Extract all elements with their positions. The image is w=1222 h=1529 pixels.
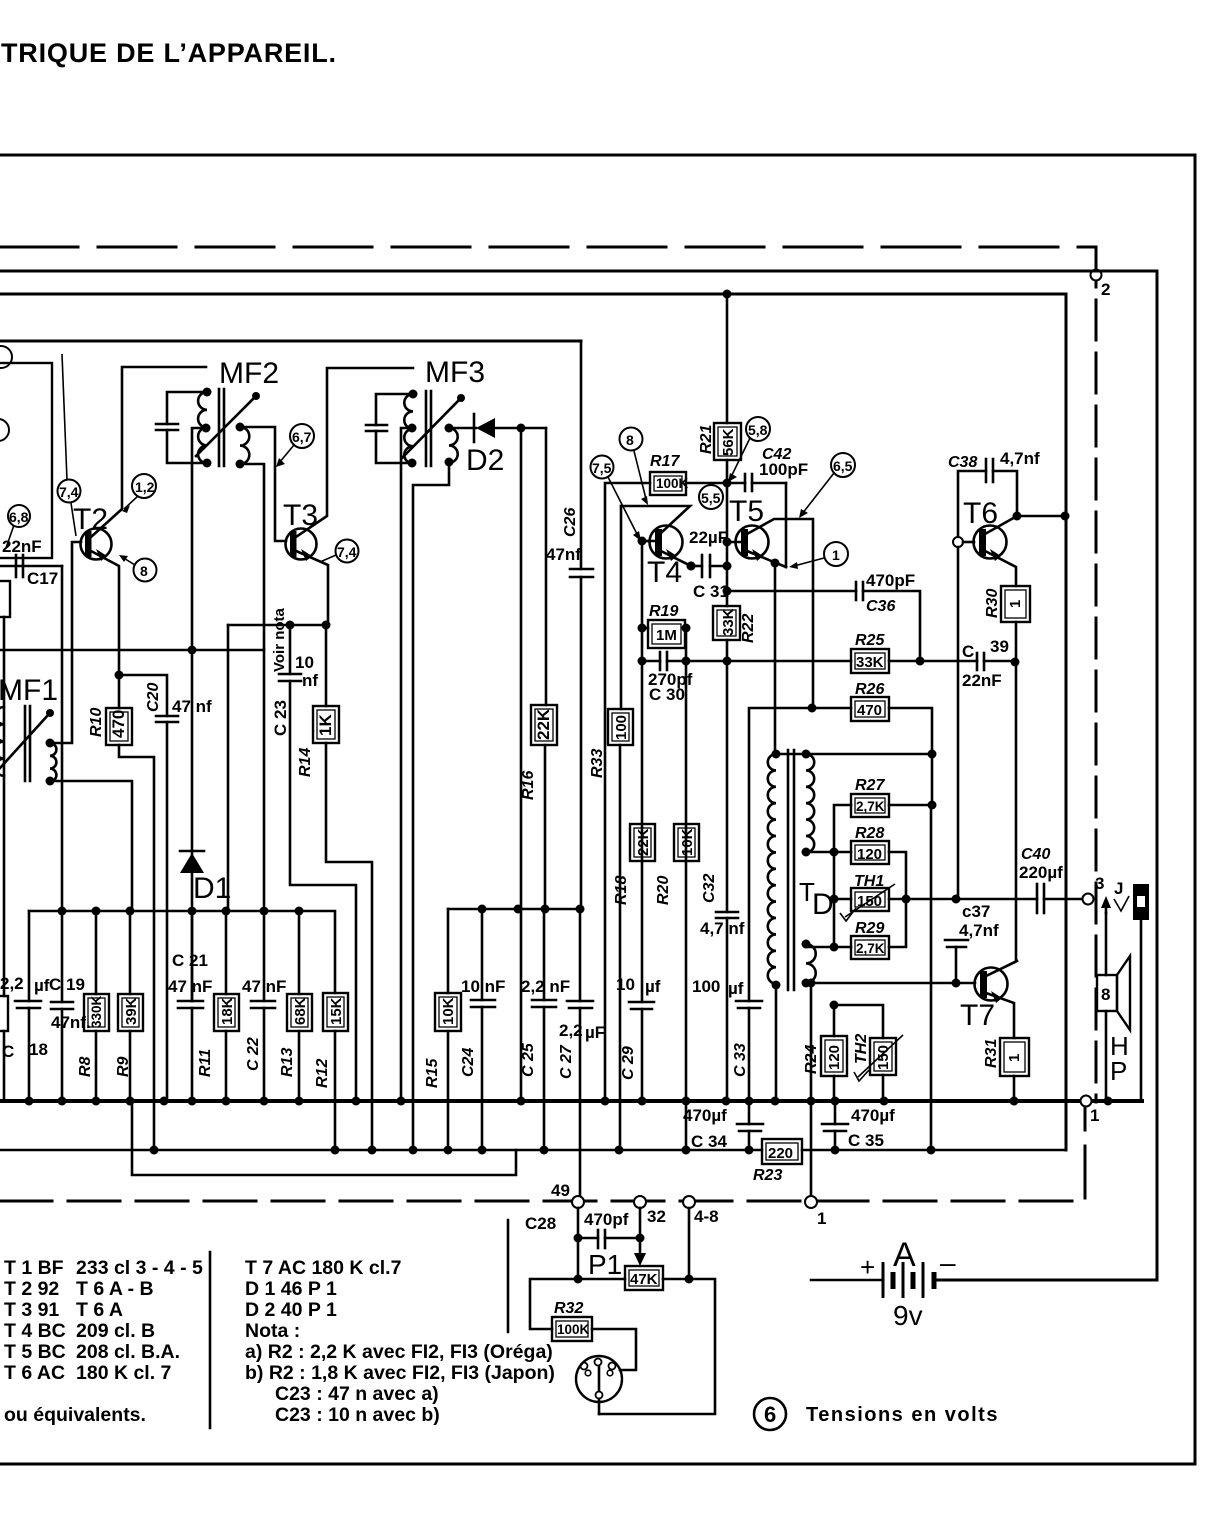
svg-text:7,4: 7,4 [59,484,79,500]
svg-text:120: 120 [857,846,882,863]
thermistor TH2 150 [834,1005,883,1038]
svg-text:µf: µf [645,977,661,996]
junction row y911 left [29,911,335,993]
svg-text:C28: C28 [525,1214,556,1233]
svg-text:µF: µF [585,1023,605,1042]
resistor R31 1 [1000,1038,1029,1076]
svg-text:D 1 46 P 1: D 1 46 P 1 [245,1278,337,1300]
svg-text:47 nF: 47 nF [242,977,286,996]
capacitor C34 470uF [748,1101,751,1124]
svg-text:47K: 47K [630,1271,658,1288]
R10 return to rail2 [119,745,154,1150]
transistor T3 [286,529,317,560]
R17 right wire [686,482,727,485]
wire MF2 sec top to T3 base [240,427,286,541]
leader line into oscillator box [62,354,67,480]
svg-text:D 2 40 P 1: D 2 40 P 1 [245,1299,337,1321]
capacitor C36 470pF row [723,587,732,596]
text divider line [507,1220,510,1332]
svg-text:18K: 18K [219,997,236,1025]
node 1 on main rail [1081,1096,1092,1107]
node 1 on dashed rail [805,1196,817,1208]
svg-text:2,2 nF: 2,2 nF [521,977,570,996]
voltage circle 5,5 [699,485,723,509]
svg-text:22nF: 22nF [2,537,42,556]
svg-text:nf: nf [302,671,318,690]
volume line x580 down [579,909,582,1202]
svg-text:R20: R20 [655,876,672,905]
svg-text:+: + [860,1252,875,1282]
svg-text:J: J [1114,879,1123,898]
svg-text:209 cl. B: 209 cl. B [76,1320,155,1342]
svg-text:208 cl. B.A.: 208 cl. B.A. [76,1341,180,1363]
svg-text:MF2: MF2 [219,357,279,390]
svg-text:2,2: 2,2 [0,974,24,993]
voltage circle 5,8 [746,417,770,441]
vertical divider [209,1252,212,1428]
svg-text:µf: µf [34,976,50,995]
capacitor C27 2,2uF [567,1000,593,1003]
svg-text:T 3 91: T 3 91 [4,1299,59,1321]
MF3 secondary coil [449,428,458,463]
svg-text:220µf: 220µf [1019,863,1063,882]
wire C17 row [0,565,62,568]
voltage circle 7,4 at T3 [336,540,359,563]
svg-text:10K: 10K [440,997,457,1025]
svg-text:C24: C24 [460,1048,477,1077]
svg-text:6: 6 [764,1402,776,1427]
svg-text:R16: R16 [520,771,537,800]
T7 collector [986,961,1017,976]
svg-text:4-8: 4-8 [694,1207,719,1226]
svg-text:R19: R19 [649,603,678,620]
svg-text:C 23: C 23 [271,700,290,736]
svg-text:T7: T7 [960,999,995,1032]
TD primary bottom to rail [775,985,778,1101]
svg-text:2: 2 [1101,280,1110,299]
svg-text:R13: R13 [279,1048,296,1077]
AGC wire y650 [0,649,264,652]
svg-text:C26: C26 [562,508,579,537]
svg-text:R26: R26 [855,681,884,698]
transistor T5 [736,526,769,559]
dashed rail corner down to node 2 [1095,247,1098,1102]
capacitor C42 100pF [727,482,745,485]
T6 base node [953,537,963,547]
circled 6 tensions [754,1398,786,1430]
inner box right edge x1065 [1065,294,1068,1150]
svg-text:1: 1 [1007,600,1024,608]
svg-text:470µf: 470µf [683,1106,727,1125]
svg-text:P1: P1 [588,1249,622,1280]
svg-text:47nf: 47nf [546,545,581,564]
svg-text:T 6 A - B: T 6 A - B [76,1278,154,1300]
voltage circle 8 at T4 [620,428,643,451]
svg-text:R18: R18 [613,876,630,905]
T4 base line down [641,541,644,1002]
T5 base [727,541,741,544]
MF2 secondary coil [240,427,249,464]
MF3 mid tap wire down [401,428,412,1101]
T6 emitter [985,551,1016,586]
svg-text:10: 10 [616,975,635,994]
R14 return to rail2 [326,743,372,1150]
svg-text:4,7nf: 4,7nf [1000,449,1040,468]
svg-text:µf: µf [728,979,744,998]
svg-text:6,8: 6,8 [9,509,29,525]
svg-text:1: 1 [1006,1054,1023,1062]
svg-text:T4: T4 [647,556,682,589]
wire MF2 sec bottom [240,464,264,911]
DIN connector [576,1356,622,1402]
svg-text:100pF: 100pF [759,460,808,479]
svg-text:100: 100 [692,977,720,996]
TD core [787,750,790,990]
svg-text:470pf: 470pf [584,1210,629,1229]
voltage circle 6,5 [831,453,855,477]
svg-text:180 K cl. 7: 180 K cl. 7 [76,1362,171,1384]
svg-text:R17: R17 [650,453,680,470]
resistor R14 1K [325,625,328,706]
transistor T6 [974,526,1007,559]
svg-text:a) R2 : 2,2 K avec FI2, FI3 (: a) R2 : 2,2 K avec FI2, FI3 (Oréga) [245,1341,553,1363]
MF1 tuning arrow [0,714,49,768]
resistor R13 68K [298,911,301,994]
resistor left edge upper (cut) [0,581,10,617]
svg-text:C 33: C 33 [732,1043,749,1077]
svg-text:1: 1 [1090,1106,1099,1125]
MF1 primary coil (cut) [0,707,4,776]
svg-text:D2: D2 [466,444,504,477]
node 3 [1083,894,1094,905]
svg-text:100: 100 [613,715,630,740]
junction R21 top [723,290,732,299]
svg-text:7,4: 7,4 [337,544,357,560]
T5 emitter to TD primary [774,563,777,754]
transistor T2 [81,529,112,560]
svg-text:470pF: 470pF [866,571,915,590]
svg-text:P: P [1110,1056,1127,1086]
svg-text:18: 18 [29,1040,48,1059]
svg-text:R32: R32 [554,1300,583,1317]
svg-text:6,5: 6,5 [833,458,853,474]
svg-text:C: C [962,642,974,661]
svg-text:C 25: C 25 [520,1042,537,1077]
T2 collector [91,367,206,537]
resistor R18 22K [630,824,655,861]
rail2 dots [150,1146,159,1155]
svg-text:C 21: C 21 [172,951,208,970]
capacitor C35 470uF [834,1101,837,1124]
resistor R20 10K [674,824,699,861]
speaker feed [1105,913,1108,975]
svg-text:R28: R28 [855,825,884,842]
svg-text:4,7 nf: 4,7 nf [700,919,745,938]
svg-text:R11: R11 [197,1049,214,1077]
capacitor C26 on x580 [580,341,583,909]
svg-text:MF3: MF3 [425,356,485,389]
svg-text:470: 470 [109,710,128,738]
svg-text:22K: 22K [534,708,553,740]
svg-text:C23 : 47 n avec a): C23 : 47 n avec a) [275,1383,439,1405]
TD secondary bottom wire to T7 base [806,982,975,985]
voltage circle 1 [824,542,848,566]
capacitor C20 [119,675,167,1101]
wire C19 drop x62 [61,566,64,911]
T3 collector [296,368,413,537]
TD secondary upper [806,754,814,852]
svg-text:R21: R21 [698,425,715,454]
svg-text:1K: 1K [316,714,335,736]
MF3 tuning arrow [402,399,460,458]
voltage circle 6,7 [290,424,314,448]
svg-text:5,8: 5,8 [748,422,768,438]
junction D2 output [517,424,526,433]
voltage circle 1,2 [132,474,156,498]
T5 collector [747,519,813,708]
svg-text:2,2: 2,2 [559,1021,583,1040]
svg-text:TRIQUE DE L’APPAREIL.: TRIQUE DE L’APPAREIL. [1,38,337,68]
node 2 [1091,270,1102,281]
MF3 primary coil [404,394,413,464]
svg-text:22K: 22K [635,828,652,856]
third AGC line [132,1101,516,1175]
capacitor C39 22nF [976,653,979,670]
svg-text:R22: R22 [740,614,757,643]
svg-text:Voir nota: Voir nota [271,607,288,672]
svg-text:D: D [812,888,834,921]
svg-text:T 4 BC: T 4 BC [4,1320,66,1342]
svg-text:C 30: C 30 [649,685,685,704]
svg-text:R14: R14 [297,748,314,777]
R17 left wire and drop x605 [605,483,650,1101]
svg-text:22nF: 22nF [962,671,1002,690]
junction T3 emitter row [322,621,331,630]
resistor R15 10K [435,993,461,1031]
R15 feed [447,909,450,993]
MF1 core [24,706,27,781]
svg-text:C32: C32 [701,874,718,903]
svg-text:39: 39 [990,637,1009,656]
svg-text:120: 120 [826,1045,843,1070]
voltage circle 7,5 [591,456,614,479]
MF3 dots [409,390,418,399]
capacitor C32 4,7nf [716,911,738,914]
MF1 secondary coil [50,743,56,781]
svg-text:33K: 33K [720,608,737,636]
svg-text:470µf: 470µf [851,1106,895,1125]
voltage circle 8 at T2 [134,559,157,582]
svg-text:6,7: 6,7 [292,429,312,445]
svg-text:C20: C20 [145,683,162,712]
capacitor C22 47nF [263,911,266,1099]
capacitor C21 47nF [191,911,194,1099]
svg-text:c37: c37 [962,902,990,921]
R33 100 on x619 [620,506,623,709]
resistor R10 470 [118,675,121,708]
T4 collector line [621,506,690,532]
svg-text:R30: R30 [984,589,1001,618]
svg-text:100K: 100K [656,476,689,491]
svg-text:10K: 10K [679,828,696,856]
junction C23 tap [286,621,295,630]
svg-text:5,5: 5,5 [701,490,721,506]
T7 emitter [986,993,1014,1038]
capacitor C24 10nF [471,999,495,1002]
svg-text:3: 3 [1095,874,1104,893]
battery right riser x1157 [936,271,1157,1280]
svg-text:T 7 AC 180 K cl.7: T 7 AC 180 K cl.7 [245,1257,401,1279]
dashed battery minus rail [0,1106,1085,1201]
MF2 primary coil [198,392,207,463]
svg-text:C: C [2,1042,14,1061]
capacitor C18 2,2uF [28,911,31,1101]
resistor R24 120 [821,1036,847,1076]
node 49 [572,1196,584,1208]
svg-text:C 19: C 19 [49,975,85,994]
svg-text:R10: R10 [88,708,105,737]
svg-text:Nota :: Nota : [245,1320,300,1342]
svg-text:C40: C40 [1021,846,1050,863]
MF2 mid tap wire [192,428,206,650]
svg-text:8: 8 [626,432,634,448]
T5 emitter [747,551,786,567]
MF2 tuning arrow [196,397,255,456]
svg-text:C36: C36 [866,598,895,615]
svg-text:8: 8 [1101,985,1110,1004]
C24 feed [481,909,484,1000]
svg-text:1: 1 [817,1209,826,1228]
svg-text:C 29: C 29 [620,1046,637,1080]
resistor R8 330K [95,911,98,994]
svg-text:T 2 92: T 2 92 [4,1278,59,1300]
dashed supply rail top [0,246,1096,249]
voltage circle partial at left edge lower [0,419,9,441]
svg-text:R27: R27 [855,777,885,794]
capacitor C30 270pf [642,660,660,663]
svg-text:233 cl 3 - 4 - 5: 233 cl 3 - 4 - 5 [76,1257,203,1279]
C42 to emitter [785,483,788,567]
svg-text:T5: T5 [729,495,764,528]
svg-text:7,5: 7,5 [592,460,612,476]
svg-text:R8: R8 [77,1056,94,1077]
svg-text:T 1 BF: T 1 BF [4,1257,64,1279]
MF2 core [218,389,221,466]
svg-text:D1: D1 [193,872,231,905]
junction y650/D1 line [188,646,197,655]
rail2 ground return [0,1149,762,1152]
junction T2 emitter / R10 / C20 [115,671,124,680]
svg-text:C 35: C 35 [848,1131,884,1150]
diode D2 [449,427,476,430]
svg-text:T 5 BC: T 5 BC [4,1341,66,1363]
svg-text:Tensions en volts: Tensions en volts [806,1404,999,1426]
svg-text:220: 220 [768,1145,793,1162]
svg-text:C 27: C 27 [558,1044,575,1079]
supply rail y271 [0,270,1157,273]
svg-text:T6: T6 [963,497,998,530]
resistor R22 33K [713,606,740,640]
transistor T4 [650,526,683,559]
svg-text:R24: R24 [803,1045,820,1074]
R19 right line down x686 [685,628,688,1150]
svg-text:C 22: C 22 [245,1037,262,1071]
TD dots [772,750,781,759]
voltage circle partial at left edge [0,346,12,368]
TD top wire [776,753,932,756]
svg-text:C17: C17 [27,569,58,588]
resistor R23 220 [762,1139,802,1164]
outer border bottom line [0,1463,1195,1466]
svg-text:T 6 AC: T 6 AC [4,1362,65,1384]
diode D1 [191,650,194,1001]
supply rail y294 [0,293,1066,296]
outer border top line [0,154,1195,157]
svg-text:R23: R23 [753,1167,782,1184]
wire MF1 sec bottom to R9 [50,781,132,911]
capacitor C23 [290,625,356,1101]
svg-text:R12: R12 [314,1059,331,1088]
svg-text:T2: T2 [73,503,108,536]
MF2 dots [203,388,212,397]
svg-text:470: 470 [857,702,882,719]
svg-text:b) R2 : 1,8 K avec FI2, FI3 (: b) R2 : 1,8 K avec FI2, FI3 (Japon) [245,1362,555,1384]
detector row y909 [448,908,580,911]
T6 collector [985,516,1065,534]
svg-text:10: 10 [295,653,314,672]
voltage circle 7,4 at T2 [58,480,81,503]
svg-text:R25: R25 [855,632,885,649]
svg-text:TH2: TH2 [853,1034,870,1064]
node 48 [683,1196,695,1208]
svg-text:10 nF: 10 nF [461,977,505,996]
MF3 padder capacitor loop [376,394,413,463]
capacitor C19 47nF [61,911,64,1101]
TD primary coil [768,754,776,984]
svg-text:R15: R15 [424,1058,441,1088]
MF3 sec bottom wire down [413,462,449,1150]
svg-text:49: 49 [551,1181,570,1200]
svg-text:39K: 39K [123,997,140,1025]
T4 emitter [661,551,691,566]
transistor list text block [4,1257,203,1426]
wire MF1 sec top to T2 base [50,542,81,743]
svg-text:C38: C38 [948,454,977,471]
svg-text:ou équivalents.: ou équivalents. [4,1404,146,1426]
capacitor C17 [15,555,18,577]
MF2 padder capacitor loop [167,392,207,463]
speaker HP [1097,975,1117,1011]
svg-text:R31: R31 [983,1039,1000,1068]
resistor R25 33K row [723,657,732,666]
emitter bias wire y625 [228,624,326,627]
inner box top edge y341 [0,340,581,343]
svg-text:100K: 100K [557,1322,590,1337]
svg-text:1M: 1M [656,627,677,644]
main ground rail [0,1099,1142,1103]
svg-text:4,7nf: 4,7nf [959,921,999,940]
capacitor C33 100uF [736,1000,762,1003]
svg-text:15K: 15K [328,997,345,1025]
resistor R30 1 [1001,586,1030,622]
svg-text:1,2: 1,2 [135,479,155,495]
T4 base junction [638,537,647,546]
T2 emitter [91,551,119,675]
voltage circle 6,8 [8,505,30,527]
resistor R16 22K [531,705,557,745]
transistor T7 [975,968,1008,1001]
svg-text:56K: 56K [720,428,737,456]
